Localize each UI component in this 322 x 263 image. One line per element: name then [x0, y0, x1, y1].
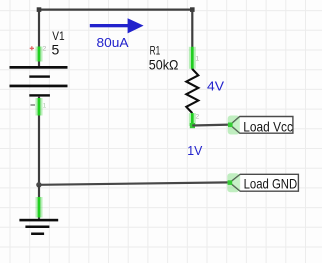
wire top horizontal — [39, 9, 192, 11]
svg-text:2: 2 — [196, 113, 200, 120]
wire bottom rail to Load GND — [39, 182, 230, 184]
wire battery top — [38, 10, 40, 67]
svg-text:80uA: 80uA — [97, 35, 129, 50]
battery plus mark — [30, 46, 34, 50]
svg-text:50kΩ: 50kΩ — [149, 57, 179, 73]
wire battery bottom — [38, 96, 40, 185]
svg-text:2: 2 — [43, 45, 47, 52]
svg-text:1V: 1V — [187, 143, 202, 158]
wire junction to ground — [38, 185, 40, 220]
flag Load GND — [230, 174, 299, 191]
flag Load Vcc — [230, 117, 293, 134]
battery V1 — [10, 66, 68, 97]
Load GND pin glow — [227, 173, 239, 192]
wire battery pin1 highlight — [36, 98, 43, 116]
Load Vcc tip node — [228, 123, 233, 128]
svg-text:Load Vcc: Load Vcc — [243, 118, 293, 134]
ground pin highlight — [36, 197, 43, 218]
wire battery pin2 highlight — [36, 47, 43, 62]
current arrow 80uA — [90, 18, 144, 33]
svg-text:5: 5 — [52, 41, 60, 57]
battery minus mark — [31, 104, 36, 106]
svg-text:R1: R1 — [150, 43, 161, 57]
wire to Load Vcc — [192, 123, 230, 126]
vertex node highlight — [190, 123, 195, 128]
svg-text:1: 1 — [43, 102, 47, 109]
flag Load GND triangle highlight — [230, 174, 240, 191]
resistor pin2 highlight — [189, 113, 196, 126]
Load Vcc pin glow — [228, 116, 240, 135]
resistor R1 body — [186, 69, 198, 113]
junction dot — [36, 182, 41, 187]
wire resistor top — [191, 10, 193, 70]
node top-left vertex — [37, 7, 42, 12]
svg-text:Load GND: Load GND — [244, 176, 298, 192]
svg-text:4V: 4V — [207, 79, 224, 94]
resistor pin1 highlight — [189, 47, 196, 69]
node top-right vertex — [190, 7, 195, 12]
svg-text:1: 1 — [196, 55, 200, 62]
flag Load Vcc triangle highlight — [230, 117, 240, 134]
Load GND tip node — [228, 180, 233, 185]
ground — [19, 219, 58, 235]
